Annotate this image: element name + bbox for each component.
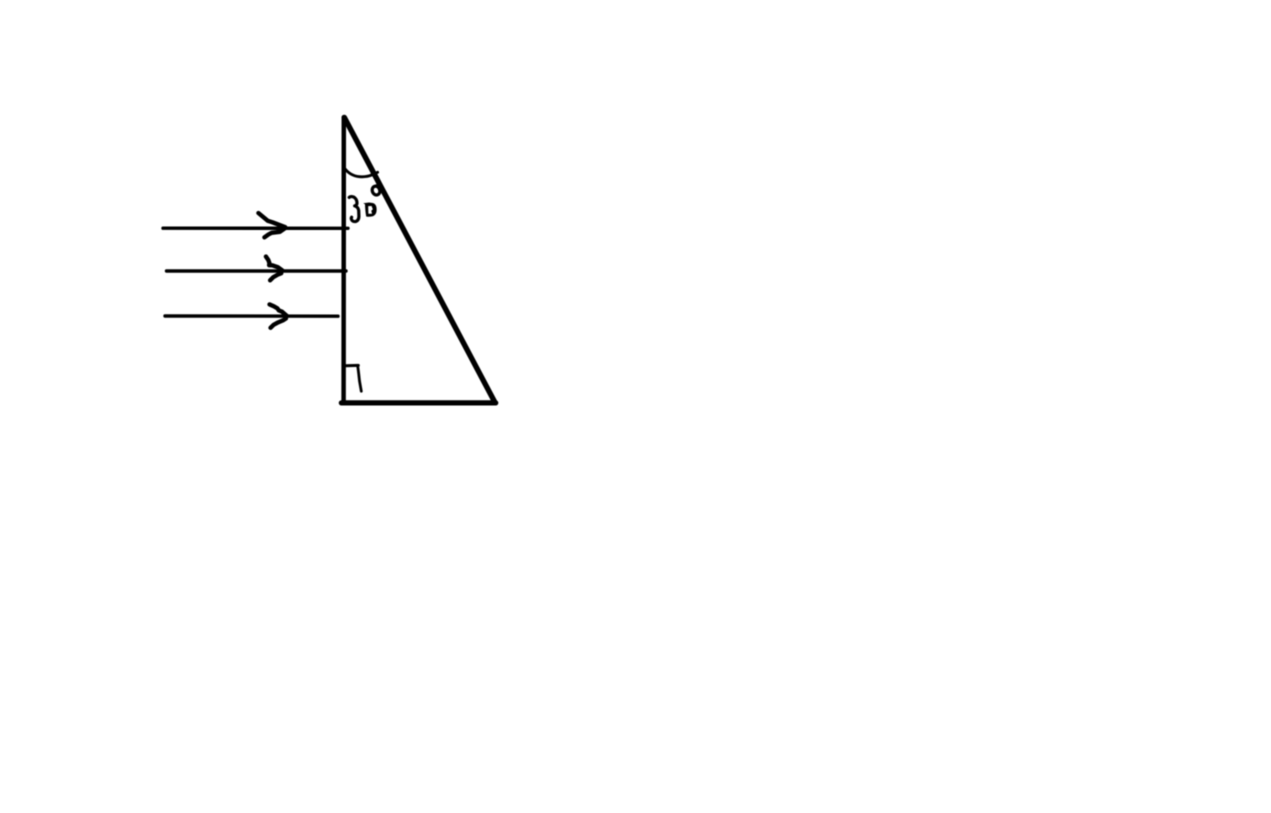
- prism hypotenuse: [344, 117, 495, 402]
- label 30 - digit 0: [363, 203, 376, 217]
- ray 2 arrowhead bottom: [270, 273, 281, 280]
- degree symbol: [372, 186, 380, 195]
- prism left vertical side: [341, 117, 346, 403]
- ray 2 arrowhead top: [266, 257, 282, 271]
- ray 3 line: [165, 314, 338, 318]
- right-angle mark horizontal: [346, 364, 359, 367]
- prism bottom side: [341, 400, 495, 405]
- right-angle mark vertical: [358, 366, 362, 391]
- label 30 - digit 3: [349, 197, 359, 222]
- ray 1 arrowhead top: [258, 213, 285, 227]
- ray 3 arrowhead bottom: [271, 318, 287, 327]
- angle arc at apex: [344, 167, 372, 176]
- ray 2 line: [167, 269, 347, 272]
- ray 1 line: [163, 226, 348, 230]
- ray 3 arrowhead top: [270, 304, 288, 316]
- arc end tick: [372, 172, 378, 174]
- ray 1 arrowhead bottom: [264, 228, 285, 237]
